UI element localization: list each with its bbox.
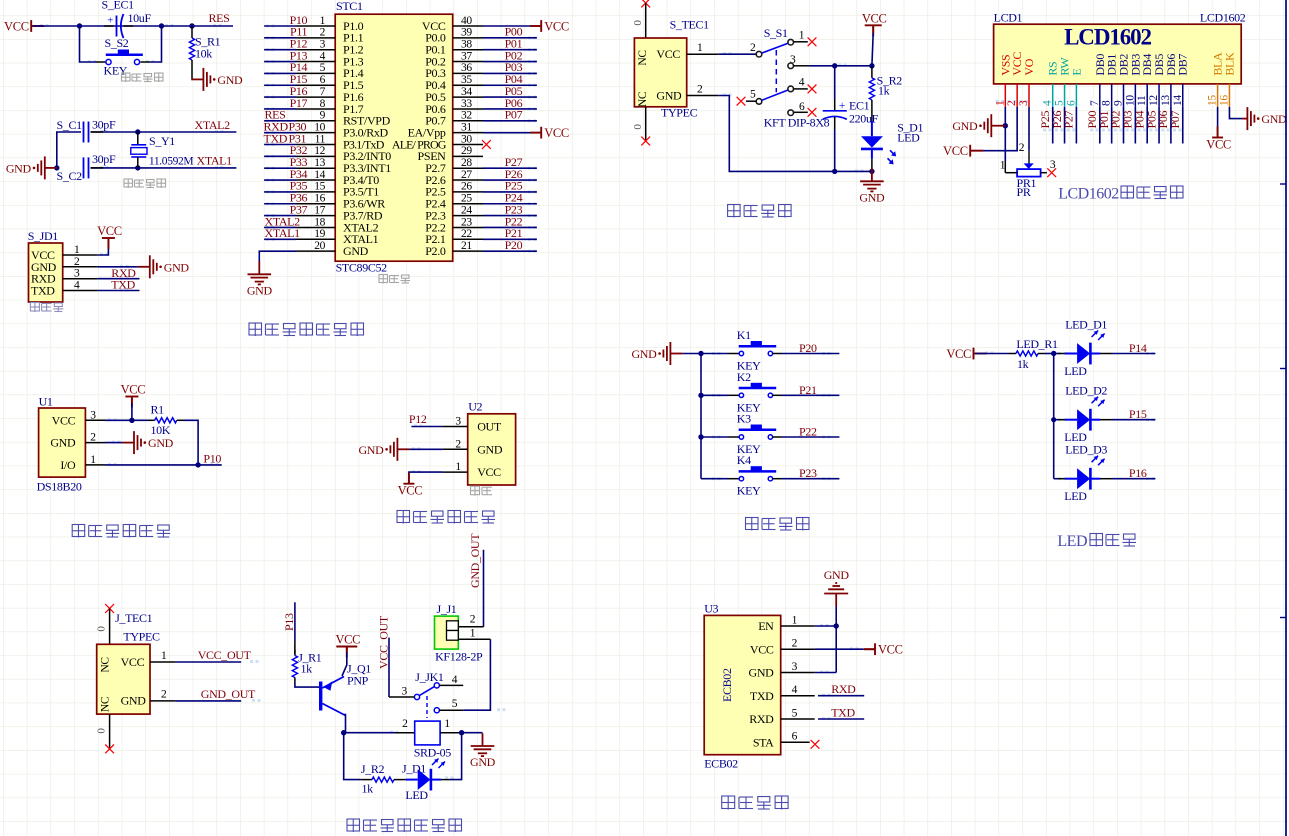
label SRD-05 value — [414, 746, 452, 760]
svg-text:VCC_OUT: VCC_OUT — [198, 648, 252, 662]
svg-text:P20: P20 — [505, 238, 523, 252]
svg-text:R1: R1 — [151, 403, 165, 417]
svg-text:23: 23 — [461, 216, 472, 228]
net label P35 — [290, 179, 308, 193]
label 11.0592M value — [149, 156, 193, 168]
svg-text:J_J1: J_J1 — [437, 602, 457, 616]
wire P33 net — [264, 167, 296, 169]
svg-text:11: 11 — [315, 133, 326, 145]
net label TXD P31 — [264, 131, 307, 145]
title LCD1602显示电路 — [1058, 186, 1183, 203]
U1 pin 2 GND — [50, 432, 105, 450]
wire RXD net — [98, 278, 140, 280]
label KEY (K3) — [737, 442, 761, 456]
svg-text:TXD: TXD — [264, 131, 288, 145]
svg-text:KEY: KEY — [104, 64, 128, 78]
svg-text:S_S1: S_S1 — [764, 26, 788, 40]
crystal S_Y1 — [131, 132, 147, 168]
svg-text:12: 12 — [314, 145, 325, 157]
svg-text:2: 2 — [470, 614, 476, 626]
wire base — [295, 683, 319, 687]
svg-text:3: 3 — [402, 686, 408, 698]
wire power gnd run — [718, 96, 872, 172]
wire TXD net — [98, 290, 140, 292]
svg-text:LCD1602: LCD1602 — [1064, 25, 1151, 50]
net label P15 — [290, 72, 308, 86]
lcd pin 14 DB7 — [1172, 54, 1190, 107]
U2 pin 1 VCC — [443, 461, 502, 479]
label J_D1 designator — [402, 762, 426, 776]
label S_S1 pin2 — [750, 42, 756, 54]
ground (bluetooth) — [824, 568, 850, 607]
net label P36 — [290, 191, 308, 205]
net label P07 (lcd) — [1168, 111, 1182, 129]
lcd wire P02 — [1123, 107, 1125, 144]
net label TXD (bt) — [831, 706, 855, 720]
U2 pin 2 GND — [443, 438, 503, 456]
J_JK1 pin3 lead — [389, 686, 414, 698]
wire P15 net — [1100, 419, 1155, 421]
label S_R2 designator — [877, 74, 903, 88]
svg-text:VCC: VCC — [878, 643, 903, 657]
mcu pin 27 P2.6 — [425, 169, 483, 187]
svg-text:12: 12 — [1148, 95, 1160, 106]
wire P26 net — [483, 179, 537, 181]
wire led to node — [441, 733, 462, 780]
net label P03 — [505, 60, 523, 74]
no connect X (S_S1 pin6) — [808, 108, 817, 117]
mcu pin 22 P2.1 — [425, 228, 483, 246]
svg-text:BLK: BLK — [1222, 52, 1236, 76]
svg-text:2: 2 — [90, 432, 96, 444]
net label P21 — [505, 226, 523, 240]
svg-text:J_TEC1: J_TEC1 — [115, 611, 153, 625]
junction — [698, 351, 703, 356]
label LED value (LED_D3) — [1064, 489, 1087, 503]
U2 pin 3 OUT — [443, 416, 502, 434]
svg-text:VCC: VCC — [750, 642, 774, 656]
svg-text:GND: GND — [148, 436, 174, 450]
wire P36 net — [264, 203, 296, 205]
net label P13 — [290, 48, 308, 62]
S_JD1 pin 2 GND — [31, 256, 98, 274]
wire reset right branch — [141, 26, 162, 62]
gray note 下载口 — [30, 303, 63, 313]
pot PR1 — [1000, 142, 1056, 177]
label DS18B20 value — [37, 480, 82, 494]
mcu pin 14 P3.4/T0 — [296, 169, 379, 187]
wire P02 net — [483, 61, 537, 63]
label LED_D1 designator — [1065, 318, 1107, 332]
wire P21 net — [483, 238, 537, 240]
svg-text:5: 5 — [452, 698, 458, 710]
svg-text:GND: GND — [6, 161, 32, 175]
svg-text:VCC: VCC — [656, 47, 680, 61]
svg-text:3: 3 — [1018, 100, 1030, 106]
wire VCC (pin31) — [483, 132, 541, 134]
svg-text:KF128-2P: KF128-2P — [435, 650, 483, 664]
svg-text:30: 30 — [461, 133, 472, 145]
power port VCC (relay) — [335, 633, 360, 658]
net label GND_OUT — [201, 687, 256, 701]
lcd wire P05 — [1158, 107, 1160, 144]
label PR1 designator — [1017, 176, 1037, 190]
wire to LED_D3 — [1054, 478, 1065, 480]
svg-text:NC: NC — [637, 50, 649, 66]
svg-text:VCC: VCC — [398, 484, 423, 498]
net label P20 — [799, 341, 817, 355]
wire crystal left branch — [57, 132, 81, 168]
mcu pin 16 P3.6/WR — [296, 193, 385, 211]
svg-text:P10: P10 — [203, 452, 221, 466]
net label P22 — [799, 425, 817, 439]
wire pin5 to J_J1 — [458, 639, 490, 710]
svg-text:XTAL2: XTAL2 — [195, 118, 231, 132]
relay coil J_JK1 SRD-05 — [402, 718, 450, 745]
S_S1 pin6 lead — [794, 101, 808, 113]
net label P14 — [1129, 341, 1147, 355]
svg-text:35: 35 — [461, 74, 472, 86]
S_TEC1 top stub — [632, 3, 646, 38]
wire P30 net — [264, 132, 296, 134]
resistor J_R2 — [361, 777, 405, 782]
svg-text:14: 14 — [314, 169, 325, 181]
label ECB02 (rotated inside) — [720, 668, 734, 702]
wire RES net — [33, 25, 233, 27]
wire VO down — [1028, 107, 1030, 164]
power port VCC (BLA) — [1206, 127, 1231, 152]
svg-text:1k: 1k — [362, 782, 374, 796]
svg-text:36: 36 — [461, 62, 472, 74]
wire GND_OUT net — [175, 700, 241, 702]
net label P23 — [505, 202, 523, 216]
label J_R1 designator — [298, 651, 322, 665]
J_JK1 pin5 lead — [439, 698, 463, 710]
mcu pin 30 ALE/ PROG — [392, 133, 483, 151]
svg-text:3: 3 — [790, 54, 796, 66]
svg-text:VCC: VCC — [544, 126, 569, 140]
net label XTAL1 — [197, 154, 233, 168]
led J_D1 — [406, 759, 445, 791]
resistor S_R2 — [869, 66, 874, 108]
net label P26 — [505, 167, 523, 181]
svg-text:1k: 1k — [1017, 357, 1029, 371]
svg-text:K2: K2 — [737, 370, 751, 384]
wire GND pin3 — [815, 672, 837, 674]
svg-text:19: 19 — [314, 228, 325, 240]
title 蓝牙模块 — [722, 796, 788, 810]
mcu pin 12 P3.2/INT0 — [296, 145, 391, 163]
svg-text:28: 28 — [461, 157, 472, 169]
label S_C1 designator — [57, 118, 83, 132]
svg-text:TXD: TXD — [750, 689, 774, 703]
label 10k value — [195, 47, 212, 61]
connector S_JD1 box — [29, 243, 63, 302]
U3 pin 1 EN — [758, 615, 814, 634]
svg-text:10uF: 10uF — [128, 11, 152, 25]
svg-text:220uF: 220uF — [849, 112, 879, 126]
svg-text:VCC: VCC — [97, 224, 122, 238]
svg-text:LED_D2: LED_D2 — [1065, 384, 1107, 398]
net label P32 — [290, 143, 308, 157]
svg-text:1: 1 — [455, 461, 461, 473]
svg-text:S_JD1: S_JD1 — [28, 229, 59, 243]
J_TEC1 bottom stub — [96, 714, 110, 749]
svg-text:GND: GND — [343, 244, 369, 258]
wire VCC pin2 — [815, 648, 875, 650]
svg-text:1: 1 — [470, 628, 476, 640]
svg-text:VCC: VCC — [52, 413, 76, 427]
svg-text:U1: U1 — [39, 395, 53, 409]
wire gnd stub (relay) — [462, 732, 483, 734]
lcd pin 7 DB0 — [1089, 54, 1107, 107]
svg-text:GND: GND — [470, 755, 496, 769]
svg-text:4: 4 — [799, 76, 805, 88]
resistor LED_R1 — [1009, 351, 1045, 356]
mcu pin 35 P0.4 — [425, 74, 483, 92]
svg-text:VCC: VCC — [943, 144, 968, 158]
gray note 单片机 — [379, 275, 410, 284]
label J_R2 designator — [361, 762, 385, 776]
wire XTAL2 net (mcu) — [264, 226, 296, 228]
power port VCC (U1) — [121, 383, 146, 421]
label 10K value — [151, 423, 171, 437]
svg-text:33: 33 — [461, 98, 472, 110]
label LED_D2 designator — [1065, 384, 1107, 398]
svg-text:P27: P27 — [1062, 111, 1076, 129]
mcu pin 5 P1.4 — [296, 62, 364, 80]
power port VCC (S_JD1) — [97, 224, 122, 249]
resistor S_R1 — [189, 26, 194, 64]
svg-text:XTAL1: XTAL1 — [197, 154, 233, 168]
mcu pin 38 P0.1 — [425, 39, 483, 57]
svg-text:J_JK1: J_JK1 — [415, 670, 444, 684]
U1 pin 1 I/O — [60, 454, 105, 472]
mcu pin 37 P0.2 — [425, 50, 483, 68]
label 220uF value — [849, 112, 879, 126]
svg-text:1: 1 — [320, 15, 326, 27]
label LED value (J_D1) — [405, 788, 428, 802]
svg-text:S_C1: S_C1 — [57, 118, 83, 132]
no connect X (S_S1 pin4) — [808, 85, 817, 94]
lcd pin 10 DB3 — [1124, 54, 1142, 107]
label EC1 designator — [849, 99, 870, 113]
wire VCC down to node — [872, 25, 873, 66]
mcu pin 8 P1.7 — [296, 98, 364, 116]
lcd pin 13 DB6 — [1160, 54, 1178, 107]
net label P03 (lcd) — [1121, 111, 1135, 129]
svg-text:P23: P23 — [799, 466, 817, 480]
S_S1 pin5 lead — [746, 89, 756, 102]
label STC1 designator — [336, 0, 363, 13]
svg-text:39: 39 — [461, 27, 472, 39]
svg-text:S_C2: S_C2 — [57, 169, 83, 183]
net label P11 — [290, 25, 308, 39]
net label P23 — [799, 466, 817, 480]
key K2 — [739, 383, 777, 398]
ground (power circuit) — [859, 169, 885, 205]
svg-text:VCC: VCC — [1206, 138, 1231, 152]
svg-text:40: 40 — [461, 15, 472, 27]
label KEY (K4) — [737, 484, 761, 498]
svg-text:2: 2 — [402, 718, 408, 730]
power port VCC (power circuit) — [862, 11, 887, 36]
svg-text:34: 34 — [461, 86, 472, 98]
label K3 designator — [737, 412, 751, 426]
junction — [834, 623, 839, 628]
svg-text:P13: P13 — [282, 613, 296, 631]
svg-text:30pF: 30pF — [92, 152, 116, 166]
svg-text:P20: P20 — [799, 341, 817, 355]
junction — [135, 165, 140, 170]
wire BLK to gnd — [1229, 107, 1242, 119]
wire gnd bus — [835, 607, 837, 673]
svg-text:GND: GND — [952, 119, 978, 133]
mcu pin 33 P0.6 — [425, 98, 483, 116]
lcd wire P04 — [1146, 107, 1148, 144]
wire to LED_D2 — [1054, 419, 1065, 421]
svg-text:NC: NC — [100, 657, 112, 673]
svg-text:1: 1 — [161, 650, 167, 662]
svg-text:S_EC1: S_EC1 — [102, 0, 135, 12]
connector J_J1 — [435, 614, 476, 650]
wire BLA down — [1217, 107, 1219, 136]
wire P27 net — [483, 167, 537, 169]
svg-text:DS18B20: DS18B20 — [37, 480, 82, 494]
label K2 designator — [737, 370, 751, 384]
no connect X (S_TEC1 top) — [641, 0, 650, 7]
title 单片机最小系统 — [249, 323, 364, 336]
label PNP value — [347, 674, 369, 688]
svg-text:TXD: TXD — [111, 278, 135, 292]
net label P10 (U1) — [203, 452, 221, 466]
svg-text:2: 2 — [1019, 142, 1025, 154]
lcd pin 9 DB2 — [1113, 54, 1131, 107]
svg-text:20: 20 — [314, 240, 325, 252]
svg-text:6: 6 — [1065, 100, 1077, 106]
lcd pin 6 E — [1065, 69, 1083, 107]
svg-text:1k: 1k — [878, 84, 890, 98]
svg-text:PR: PR — [1017, 185, 1031, 199]
key K3 — [739, 425, 777, 440]
svg-text:6: 6 — [320, 74, 326, 86]
net label P01 (lcd) — [1097, 111, 1111, 129]
title 水位检测模块 — [397, 511, 495, 524]
net label P34 — [290, 167, 308, 181]
wire VCC down-left — [972, 107, 1017, 151]
svg-text:1k: 1k — [301, 662, 313, 676]
wire P12 net — [264, 49, 296, 51]
net label P17 — [290, 96, 308, 110]
mcu pin 32 P0.7 — [425, 110, 483, 128]
label LED value (LED_D1) — [1064, 364, 1087, 378]
wire P20 net — [773, 353, 840, 355]
sheet border — [1280, 0, 1286, 836]
label KFT DIP-8X8 — [764, 116, 830, 130]
mcu pin 31 EA/Vpp — [408, 121, 483, 139]
svg-text:2: 2 — [74, 256, 80, 268]
wire to relay coil — [344, 732, 415, 734]
wire P35 net — [264, 191, 296, 193]
title 电源电路 — [728, 205, 792, 218]
wire P23 net — [773, 478, 840, 480]
svg-text:0: 0 — [96, 626, 108, 632]
wire res to node — [1045, 353, 1054, 355]
svg-text:P21: P21 — [799, 383, 817, 397]
connector S_TEC1 box — [634, 38, 686, 107]
svg-text:LED_R1: LED_R1 — [1016, 337, 1058, 351]
ground (mcu) — [247, 262, 273, 298]
svg-text:13: 13 — [1160, 95, 1172, 106]
svg-text:STA: STA — [753, 735, 774, 749]
svg-text:S_Y1: S_Y1 — [149, 134, 175, 148]
svg-text:P15: P15 — [1129, 407, 1147, 421]
capacitor S_EC1 — [104, 14, 133, 38]
switch S_S2 — [106, 50, 143, 65]
S_JD1 pin 1 VCC — [31, 244, 98, 262]
junction — [869, 63, 874, 68]
svg-text:2: 2 — [1006, 100, 1018, 106]
wire U1 gnd — [105, 442, 122, 444]
mcu U-STC1 box — [335, 14, 453, 261]
power port VCC (led) — [946, 347, 986, 361]
capacitor S_C2 — [84, 157, 104, 178]
svg-text:6: 6 — [792, 731, 798, 743]
svg-text:1: 1 — [994, 100, 1006, 106]
mcu pin 6 P1.5 — [296, 74, 364, 92]
net label TXD — [111, 278, 135, 292]
svg-text:9: 9 — [320, 110, 326, 122]
S_S1 pin4 lead — [794, 76, 808, 89]
wire P22 net — [483, 226, 537, 228]
svg-text:XTAL1: XTAL1 — [265, 226, 301, 240]
wire keys gnd — [682, 353, 701, 355]
net label P12 — [409, 412, 427, 426]
net label P14 — [290, 60, 308, 74]
svg-text:TXD: TXD — [831, 706, 855, 720]
sensor U2 box — [468, 414, 516, 485]
wire XTAL1 net — [91, 167, 237, 169]
svg-text:24: 24 — [461, 204, 472, 216]
wire P10 net (U1) — [105, 464, 222, 466]
svg-text:38: 38 — [461, 39, 472, 51]
wire P37 net — [264, 215, 296, 217]
svg-text:S_TEC1: S_TEC1 — [670, 18, 710, 32]
svg-text:27: 27 — [461, 169, 472, 181]
svg-text:22: 22 — [461, 228, 472, 240]
svg-text:LED: LED — [1057, 533, 1087, 550]
mcu pin 4 P1.3 — [296, 50, 364, 68]
J_TEC1 pin NC VCC — [100, 650, 176, 673]
S_TEC1 pin NC VCC — [637, 42, 718, 66]
svg-text:VCC: VCC — [4, 19, 29, 33]
label LED_R1 designator — [1016, 337, 1058, 351]
svg-text:9: 9 — [1113, 100, 1125, 106]
svg-text:2: 2 — [455, 438, 461, 450]
net label XTAL2 — [195, 118, 231, 132]
net label P06 (lcd) — [1156, 111, 1170, 129]
svg-text:J_R2: J_R2 — [361, 762, 385, 776]
svg-text:E: E — [1069, 69, 1083, 76]
title 水温采集模块 — [72, 525, 170, 538]
svg-text:TYPEC: TYPEC — [661, 106, 698, 120]
wire keys bus — [700, 354, 702, 479]
no connect X (J_TEC1 top) — [105, 604, 114, 613]
junction — [341, 730, 346, 735]
svg-text:EC1: EC1 — [849, 99, 870, 113]
svg-text:25: 25 — [461, 193, 472, 205]
wire P20 net — [483, 250, 537, 252]
